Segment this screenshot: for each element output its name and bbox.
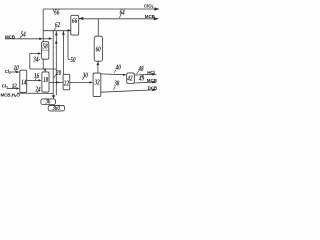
leader 38 [114, 86, 116, 89]
wire MCB overhead line 64 [79, 18, 155, 20]
leader 56 [53, 9, 55, 13]
arrowhead line 62 into 66 [68, 29, 71, 31]
arrowhead into vessel 58 left [38, 52, 41, 54]
leader 49 [141, 74, 143, 76]
svg-text:50: 50 [70, 58, 75, 65]
leader 64 [119, 15, 121, 18]
wire Cl2 input 12 [7, 87, 16, 89]
svg-text:56: 56 [54, 10, 60, 17]
wire line 49 [134, 81, 152, 84]
svg-text:ClO2: ClO2 [144, 3, 154, 9]
wire riser from vessel 22 [62, 31, 64, 75]
svg-text:58: 58 [43, 44, 48, 51]
svg-text:62: 62 [55, 23, 60, 30]
svg-text:16: 16 [34, 73, 40, 80]
tank 360 [48, 105, 64, 111]
vessel 58 [42, 42, 49, 60]
svg-text:20: 20 [55, 71, 61, 78]
svg-text:12: 12 [12, 84, 17, 91]
svg-text:54: 54 [21, 32, 26, 39]
wire MCB H2O line 24 [18, 92, 54, 94]
svg-text:18: 18 [43, 78, 48, 85]
arrowhead MCB feed extension [49, 37, 53, 40]
drum 42 [127, 73, 135, 84]
wire drop 58 to 18 [43, 59, 45, 71]
condenser 66 [71, 15, 79, 35]
leader 10 [15, 69, 16, 71]
svg-text:360: 360 [51, 106, 60, 113]
wire line 16 from 14 to 18 [27, 79, 40, 81]
wire line 62 [43, 30, 70, 32]
absorber 18 [42, 72, 49, 92]
wire recycle riser to 58 [30, 54, 39, 70]
wire line 48 [134, 73, 152, 76]
leader 30 [82, 77, 84, 80]
svg-text:Cl2: Cl2 [5, 69, 11, 75]
leader 54 [20, 36, 22, 39]
tank 36 [41, 99, 56, 105]
arrowhead line 16 [38, 79, 41, 81]
svg-text:64: 64 [120, 10, 125, 17]
arrowhead down into tank 36 [52, 95, 55, 99]
wire riser to column 60 [97, 19, 99, 36]
svg-text:48: 48 [138, 66, 144, 73]
svg-text:22: 22 [63, 81, 69, 88]
svg-text:40: 40 [115, 65, 121, 72]
arrowhead line 40 into 42 [123, 74, 126, 76]
wire drop A to tank 36 [52, 31, 54, 96]
svg-text:MCB,H2O: MCB,H2O [1, 92, 21, 98]
svg-text:MCB: MCB [5, 34, 16, 39]
wire MCB feed line 54 [5, 38, 40, 40]
wire ClO2 riser [43, 9, 154, 42]
arrowhead mid line 20 [56, 81, 59, 83]
leader 16 [35, 77, 37, 80]
leader 12 [13, 86, 14, 88]
column 60 [94, 36, 102, 61]
svg-text:60: 60 [96, 47, 101, 54]
arrowhead Cl2 10 [16, 71, 19, 73]
wire line 40 [101, 73, 124, 76]
arrowhead MCB feed 54 [39, 38, 43, 41]
svg-text:42: 42 [127, 76, 133, 83]
svg-text:30: 30 [82, 73, 88, 80]
arrowhead line 49 out [152, 81, 156, 84]
column 32 [93, 73, 101, 97]
svg-text:DCB: DCB [148, 85, 158, 90]
svg-text:32: 32 [94, 80, 100, 87]
wire line 30 from 22 to 32 [70, 81, 91, 83]
absorber 22 [63, 74, 70, 90]
svg-text:49: 49 [138, 76, 144, 83]
svg-text:36: 36 [45, 99, 52, 106]
arrowhead MCB out top [154, 17, 159, 20]
arrowhead line 38 out [152, 89, 156, 92]
svg-text:66: 66 [72, 19, 78, 26]
svg-text:34: 34 [32, 57, 38, 64]
leader 24 [37, 91, 39, 93]
arrowhead line 48 out [152, 73, 156, 76]
svg-text:14: 14 [21, 80, 26, 87]
arrowhead ClO2 out [154, 7, 159, 10]
svg-text:MCB: MCB [147, 78, 158, 83]
absorber 14 [20, 70, 27, 92]
svg-text:Cl2: Cl2 [2, 84, 8, 90]
wire leader of label 50 [68, 31, 70, 60]
arrowhead up riser B [55, 32, 58, 36]
tray line in vessel 58 [42, 49, 49, 51]
arrowhead line 30 into 32 [90, 81, 93, 83]
arrowhead Cl2 12 [16, 87, 19, 89]
leader 34 [38, 59, 40, 60]
svg-text:38: 38 [113, 81, 119, 88]
wire riser B [55, 31, 57, 96]
svg-text:MCB: MCB [145, 14, 156, 19]
svg-text:24: 24 [35, 87, 41, 94]
arrowhead into condenser 66 right [79, 17, 83, 20]
wire MCB feed extension [43, 38, 49, 40]
wire Cl2 input 10 [10, 71, 17, 73]
wire line 38 [101, 90, 153, 92]
arrowhead down into 18 [44, 69, 47, 72]
leader 48 [137, 71, 139, 74]
leader 40 [114, 70, 116, 73]
wire stub 58 bottoms [30, 68, 57, 70]
leader 20 [54, 75, 56, 78]
arrowhead up into 60 [97, 62, 100, 66]
svg-text:HCl: HCl [147, 70, 154, 75]
leader 62 [54, 27, 56, 30]
arrowhead up riser 22 [62, 31, 65, 35]
svg-text:10: 10 [14, 65, 19, 72]
arrowhead up riser B second [55, 40, 58, 44]
wire line 20 from 18 to 22 [49, 81, 63, 83]
wire connector 32 to 60 [97, 61, 99, 73]
